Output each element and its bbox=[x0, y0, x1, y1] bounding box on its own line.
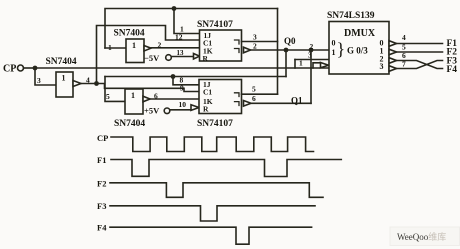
wire CP down to inverter U1 input bbox=[35, 68, 56, 85]
wire enable stub bbox=[313, 63, 321, 68]
inverter U1 box bbox=[56, 72, 73, 97]
svg-text:WeeQoo维库: WeeQoo维库 bbox=[397, 231, 446, 242]
svg-text:2: 2 bbox=[158, 41, 162, 50]
watermark WeeQoo bbox=[390, 227, 460, 246]
wire U1 output bbox=[81, 83, 97, 85]
svg-text:3: 3 bbox=[253, 33, 257, 42]
inverter U4 box bbox=[125, 89, 143, 114]
wire U2 output to FF1 1K bbox=[151, 47, 200, 49]
svg-text:CP: CP bbox=[3, 64, 16, 75]
svg-text:SN7404: SN7404 bbox=[114, 119, 145, 129]
svg-text:1: 1 bbox=[132, 41, 136, 50]
svg-text:10: 10 bbox=[179, 100, 187, 109]
svg-text:SN74LS139: SN74LS139 bbox=[327, 11, 375, 21]
wire DMUX out1 to F2 bbox=[397, 51, 443, 53]
wire DMUX out3 crossing to F3 bbox=[397, 61, 443, 69]
svg-text:8: 8 bbox=[180, 76, 184, 85]
wire clock rail to FF2 bbox=[97, 84, 200, 92]
svg-text:0: 0 bbox=[332, 39, 336, 48]
DMUX enable input triangle bbox=[321, 63, 329, 68]
FF2 R input triangle bbox=[191, 105, 199, 111]
wire line B down to FF2 1J bbox=[173, 77, 199, 85]
svg-text:1: 1 bbox=[180, 25, 184, 34]
power -5V terminal bbox=[144, 53, 171, 63]
svg-text:CP: CP bbox=[97, 133, 108, 143]
svg-text:SN74107: SN74107 bbox=[197, 20, 233, 30]
svg-text:1: 1 bbox=[131, 91, 135, 100]
node top line junction to FF1 J bbox=[172, 6, 177, 11]
svg-text:3: 3 bbox=[308, 51, 312, 60]
wire DMUX select 1 row bbox=[295, 59, 329, 61]
node CP junction bbox=[33, 66, 38, 71]
svg-text:4: 4 bbox=[86, 76, 90, 85]
FF2 Qbar output triangle bbox=[244, 101, 252, 107]
wire clock riser to FF1 bbox=[97, 26, 200, 84]
svg-text:SN7404: SN7404 bbox=[46, 57, 77, 67]
svg-text:2: 2 bbox=[253, 42, 257, 51]
inverter U2 box bbox=[126, 39, 144, 63]
waveform F4 bbox=[110, 227, 312, 244]
FF1 Qbar output triangle bbox=[244, 47, 251, 53]
waveform F2 bbox=[110, 183, 323, 198]
input terminal CP bbox=[3, 64, 24, 75]
node Q0 branch junction bbox=[284, 48, 289, 53]
svg-text:C1: C1 bbox=[203, 88, 212, 97]
wire FF1 Q pin 3 bbox=[242, 41, 278, 43]
wire U4 output to FF2 1K bbox=[150, 98, 199, 100]
svg-text:F4: F4 bbox=[447, 65, 458, 75]
node line B junction to FF2 J bbox=[171, 74, 176, 79]
DMUX output 0 triangle bbox=[389, 41, 397, 47]
wire FF2 Q pin 5 bbox=[242, 93, 278, 95]
FF1 R input triangle bbox=[194, 54, 200, 60]
DMUX output 2 triangle bbox=[389, 58, 397, 64]
wire U2 input stub bbox=[105, 47, 126, 49]
power +5V terminal bbox=[144, 106, 170, 116]
svg-text:G 0/3: G 0/3 bbox=[347, 46, 368, 56]
wire Qbar1 up to DMUX select 1 bbox=[310, 50, 312, 103]
wire -5V to FF1 R bbox=[171, 56, 193, 58]
svg-text:6: 6 bbox=[252, 94, 256, 103]
wire top feedback line Q1 bbox=[105, 9, 278, 49]
wire Q0 down to feedback line B bbox=[285, 50, 287, 77]
decoder U6 box bbox=[329, 22, 389, 75]
inverter U2 output triangle bbox=[144, 46, 151, 52]
wire Q0 to DMUX select 0 bbox=[251, 49, 330, 51]
node U1 output junction bbox=[94, 81, 99, 86]
svg-text:1: 1 bbox=[332, 48, 336, 57]
flip-flop U3 box bbox=[200, 30, 242, 63]
svg-text:5: 5 bbox=[106, 92, 110, 101]
svg-text:−5V: −5V bbox=[144, 53, 160, 63]
svg-text:1: 1 bbox=[299, 59, 303, 68]
wire top line down to FF1 1J bbox=[174, 9, 200, 34]
svg-text:SN74107: SN74107 bbox=[197, 119, 233, 129]
DMUX output 1 triangle bbox=[389, 49, 397, 55]
wire Qbar1 to riser bbox=[251, 102, 311, 104]
node junction near DMUX pin2 bbox=[309, 48, 314, 53]
svg-text:DMUX: DMUX bbox=[344, 28, 376, 39]
waveform F1 bbox=[111, 160, 341, 177]
svg-text:F3: F3 bbox=[97, 201, 106, 211]
feedback line B Q0 bbox=[105, 76, 286, 78]
svg-text:R: R bbox=[203, 54, 209, 63]
svg-text:6: 6 bbox=[154, 92, 158, 101]
svg-text:+5V: +5V bbox=[144, 106, 160, 116]
svg-text:Q0: Q0 bbox=[284, 36, 296, 46]
svg-text:3: 3 bbox=[380, 62, 384, 71]
wire select1 corner to CP line bbox=[294, 60, 296, 69]
svg-text:4: 4 bbox=[402, 33, 406, 42]
svg-text:F1: F1 bbox=[97, 155, 106, 165]
wire DMUX out0 to F1 bbox=[397, 43, 443, 45]
inverter U4 output triangle bbox=[143, 96, 150, 102]
svg-text:13: 13 bbox=[177, 49, 185, 57]
svg-text:Q1: Q1 bbox=[291, 96, 303, 106]
svg-text:R: R bbox=[203, 105, 209, 114]
waveform F3 bbox=[110, 206, 315, 221]
wire CP main line to DMUX enable bbox=[35, 67, 329, 69]
svg-text:SN7404: SN7404 bbox=[114, 29, 145, 39]
svg-text:5: 5 bbox=[252, 85, 256, 94]
svg-text:3: 3 bbox=[37, 76, 41, 85]
svg-text:F2: F2 bbox=[97, 179, 106, 189]
svg-text:F4: F4 bbox=[97, 223, 107, 233]
flip-flop U5 box bbox=[199, 80, 242, 114]
svg-text:1: 1 bbox=[62, 74, 66, 83]
wire CP terminal to junction bbox=[24, 67, 36, 69]
svg-text:}: } bbox=[337, 39, 346, 59]
waveform CP bbox=[111, 137, 314, 152]
inverter U1 output triangle bbox=[73, 81, 81, 87]
wire +5V to FF2 R bbox=[170, 109, 191, 111]
DMUX output 3 triangle bbox=[389, 66, 397, 72]
wire DMUX out2 crossing to F4 bbox=[397, 61, 443, 69]
wire Q1 riser to top line bbox=[277, 9, 279, 95]
wire line B down to U4 input bbox=[105, 77, 125, 102]
